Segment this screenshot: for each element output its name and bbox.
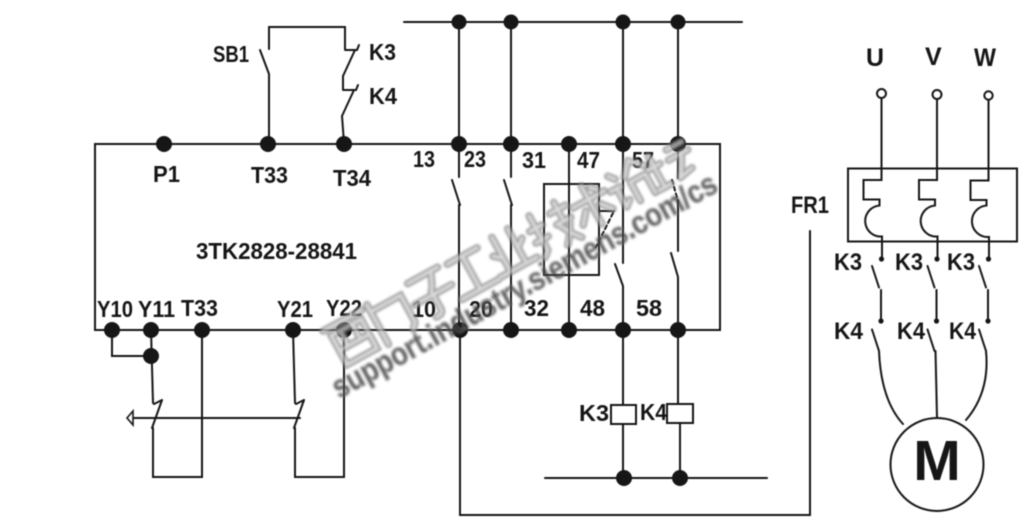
node dot 48	[615, 322, 631, 338]
wire W to motor	[966, 351, 987, 420]
wire SB1 branch top	[269, 26, 345, 28]
svg-text:M: M	[913, 429, 960, 493]
wire coil K4 to bottom bus	[679, 423, 681, 478]
node dot Y11	[143, 322, 159, 338]
wire bus drop to terminal 47	[622, 22, 624, 144]
heater element V	[919, 169, 938, 259]
wire bus drop to terminal 23	[510, 22, 512, 144]
contact 47-48	[615, 144, 623, 330]
node dot bus-47	[616, 15, 631, 30]
wire bus drop to terminal 13	[458, 22, 460, 144]
linkage dashed to contact 47	[596, 213, 613, 247]
terminal circle V	[933, 90, 942, 99]
node dot 58	[670, 322, 686, 338]
svg-text:T33: T33	[251, 162, 288, 188]
wire return 10 to FR1	[460, 231, 810, 515]
switch SB1	[260, 27, 269, 144]
svg-text:K4: K4	[834, 318, 864, 345]
contact 23-20	[504, 144, 512, 330]
node dot T33 top	[260, 136, 276, 152]
node dot bus-13	[452, 15, 467, 30]
node dot Y10	[104, 322, 120, 338]
contact K3 phase W	[979, 266, 988, 321]
wire bottom bus	[545, 477, 767, 479]
contact point W mid	[985, 318, 990, 323]
contact point U top	[879, 256, 884, 261]
wire 31-32	[568, 144, 570, 330]
node dot Y21	[285, 322, 301, 338]
svg-text:K3: K3	[834, 249, 862, 276]
svg-text:K3: K3	[895, 249, 923, 276]
wire U to motor	[879, 351, 903, 424]
watermark chinese line	[322, 133, 701, 369]
wire W down	[988, 100, 990, 169]
terminal circle W	[984, 91, 992, 99]
svg-text:Y10: Y10	[97, 296, 133, 322]
linkage stub from coil box	[599, 210, 614, 212]
contact Y21-Y22 branch	[293, 330, 344, 477]
linkage dashed on 57	[672, 180, 678, 201]
wire 58 to coil K4	[677, 330, 679, 404]
node dot 32	[561, 322, 577, 338]
contact point V top	[934, 256, 939, 261]
node dot 57	[670, 136, 686, 152]
svg-text:K3: K3	[369, 39, 396, 65]
contact point W top	[986, 256, 991, 261]
svg-text:SB1: SB1	[213, 41, 249, 67]
heater element U	[864, 169, 883, 259]
svg-text:W: W	[974, 44, 996, 72]
svg-text:58: 58	[636, 295, 662, 321]
svg-text:K4: K4	[949, 318, 977, 345]
relay coil box internal	[544, 184, 599, 275]
wire coil K3 to bottom bus	[622, 424, 624, 478]
svg-text:K4: K4	[897, 318, 926, 345]
node dot 23	[503, 136, 519, 152]
node dot 13	[451, 136, 467, 152]
wire 48 to coil K3	[622, 330, 624, 405]
contact 13-10	[452, 144, 460, 330]
contact K4 phase U	[872, 330, 879, 352]
node dot Y22	[336, 322, 352, 338]
contact K3 phase V	[928, 266, 937, 321]
svg-text:K4: K4	[369, 83, 397, 109]
node dot P1	[156, 136, 172, 152]
wire top supply bus	[404, 21, 742, 23]
node dot 20	[503, 322, 519, 338]
svg-text:Y11: Y11	[138, 296, 175, 322]
contact K4 (NC, top)	[342, 85, 358, 143]
node dot bus-57	[671, 15, 686, 30]
svg-text:K3: K3	[947, 249, 975, 276]
contact K3 phase U	[872, 266, 881, 321]
svg-text:48: 48	[580, 295, 605, 321]
coil K3	[611, 405, 636, 424]
svg-text:31: 31	[522, 147, 546, 173]
wire Y10 jumper to Y11	[112, 330, 151, 356]
relay box 3TK2828-28841	[95, 144, 720, 330]
wire V to motor	[936, 351, 938, 418]
node dot 31	[561, 136, 577, 152]
heater element W	[971, 170, 990, 259]
node dot 10	[452, 322, 468, 338]
wire V down	[936, 99, 938, 169]
coil K4	[667, 404, 693, 423]
svg-text:P1: P1	[153, 161, 180, 187]
contact 57-58	[671, 144, 678, 330]
node dot Y10-Y11 junction	[143, 348, 159, 364]
actuator arrow	[127, 411, 133, 425]
svg-text:U: U	[866, 44, 884, 72]
node dot T34	[336, 136, 352, 152]
contact Y11-T33 branch	[151, 330, 202, 477]
wire bus drop to terminal 57	[677, 22, 679, 144]
svg-text:23: 23	[464, 146, 486, 172]
svg-text:T34: T34	[333, 165, 371, 191]
svg-text:Y21: Y21	[277, 296, 313, 322]
node dot 47	[615, 136, 631, 152]
svg-text:3TK2828-28841: 3TK2828-28841	[196, 238, 357, 264]
contact point V mid	[934, 318, 939, 323]
motor M circle	[891, 418, 984, 511]
linkage bar e-stop	[134, 417, 300, 419]
svg-text:13: 13	[413, 146, 435, 172]
wire U down	[881, 98, 883, 169]
svg-text:K4: K4	[640, 399, 667, 425]
node dot bus-23	[504, 15, 519, 30]
thermal relay FR1 box	[848, 169, 1017, 242]
contact K4 phase W	[979, 330, 986, 352]
svg-text:T33: T33	[181, 295, 218, 321]
svg-text:FR1: FR1	[791, 192, 829, 219]
contact K3 (NC, top)	[343, 27, 359, 89]
terminal circle U	[877, 89, 886, 98]
node dot bus K3 coil	[616, 470, 632, 486]
svg-text:K3: K3	[579, 400, 609, 426]
node dot bus K4 coil	[672, 470, 688, 486]
node dot T33 bottom	[194, 322, 210, 338]
svg-text:V: V	[925, 43, 942, 71]
contact K4 phase V	[928, 330, 935, 352]
contact point U mid	[878, 318, 883, 323]
svg-text:47: 47	[577, 147, 600, 173]
